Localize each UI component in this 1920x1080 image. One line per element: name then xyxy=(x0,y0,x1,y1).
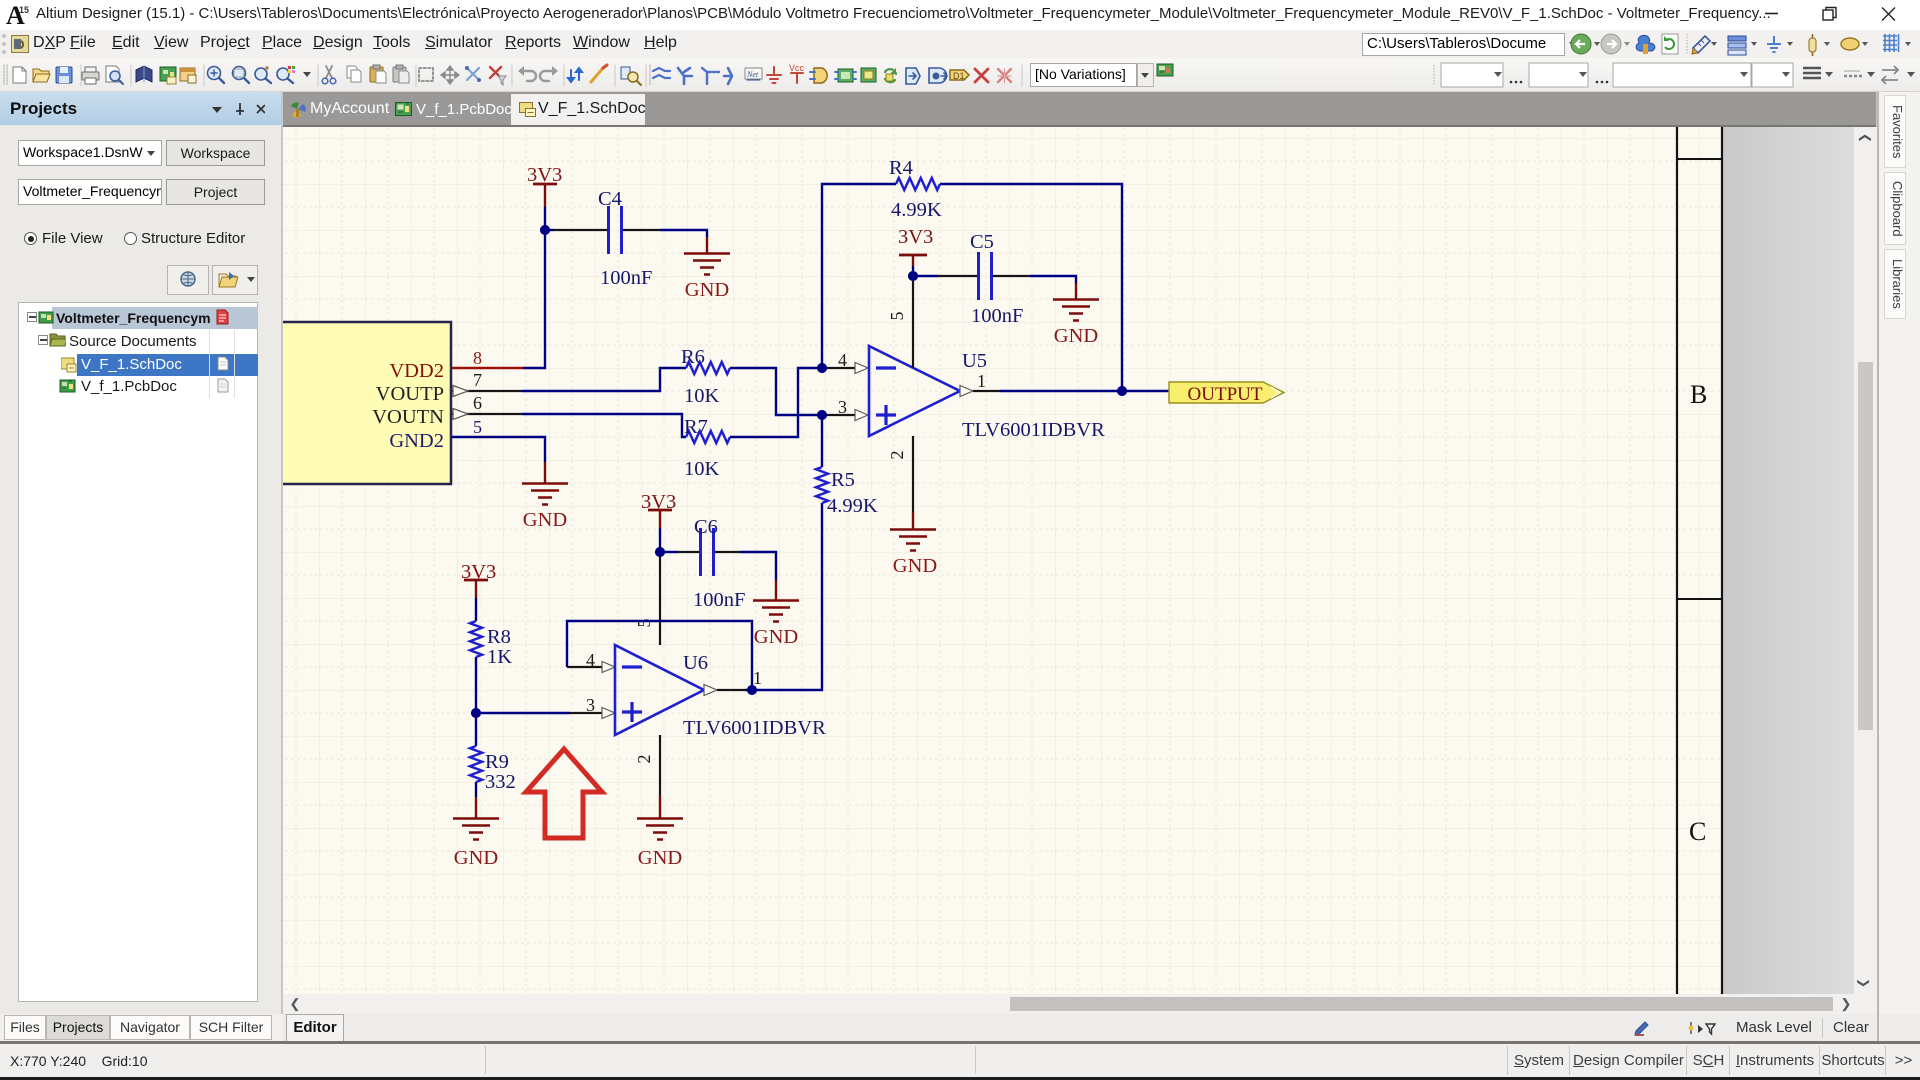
ground GND (R9) xyxy=(453,797,499,869)
node junction U6 output xyxy=(747,685,757,695)
svg-text:3: 3 xyxy=(586,695,595,715)
window xyxy=(180,68,195,81)
handle xyxy=(649,65,651,85)
svg-text:GND: GND xyxy=(1054,325,1098,347)
svg-text:TLV6001IDBVR: TLV6001IDBVR xyxy=(962,419,1105,441)
U5 +input pin lead xyxy=(822,414,855,416)
wire node to U6 +input xyxy=(476,712,570,714)
wire pin7 to R6 xyxy=(522,368,686,391)
gnd icon xyxy=(767,67,781,83)
resistor R6 xyxy=(681,346,730,407)
svg-text:100nF: 100nF xyxy=(693,589,745,611)
zoom colored xyxy=(277,68,289,80)
device sheet xyxy=(929,68,947,83)
svg-text:100nF: 100nF xyxy=(600,267,652,289)
svg-text:C: C xyxy=(1689,817,1706,846)
save xyxy=(56,67,72,83)
net label xyxy=(745,68,762,79)
svg-text:6: 6 xyxy=(473,393,482,413)
D1 tag xyxy=(950,70,969,80)
sep xyxy=(614,65,616,86)
oval xyxy=(1841,38,1859,50)
svg-text:VOUTN: VOUTN xyxy=(372,406,444,428)
cut xyxy=(326,66,332,78)
wire xyxy=(653,68,670,78)
pin 7 lead xyxy=(452,390,522,392)
paste xyxy=(370,67,383,82)
move xyxy=(441,66,459,84)
wire U6 feedback xyxy=(567,621,752,690)
printer xyxy=(82,72,99,80)
svg-text:TLV6001IDBVR: TLV6001IDBVR xyxy=(683,717,826,739)
book xyxy=(136,66,152,82)
grid xyxy=(1883,34,1899,52)
svg-text:5: 5 xyxy=(887,312,907,321)
capacitor C5 pin leads xyxy=(938,275,1030,277)
wire pin8 red stub xyxy=(452,367,523,369)
wire pin6 to R7 xyxy=(522,414,686,437)
resistor R9 xyxy=(470,746,516,793)
svg-text:R4: R4 xyxy=(889,157,913,179)
redo xyxy=(540,71,555,81)
svg-text:10K: 10K xyxy=(684,458,720,480)
node junction C6 xyxy=(655,547,665,557)
wire R7 to -input xyxy=(730,368,822,437)
zoom sparkle xyxy=(255,68,267,80)
pin 7 indicator xyxy=(453,386,468,397)
svg-text:R8: R8 xyxy=(487,626,511,648)
sep xyxy=(130,65,132,86)
copy xyxy=(347,66,357,78)
ground GND (U6 pin2) xyxy=(637,795,683,869)
part xyxy=(724,68,732,84)
svg-text:15: 15 xyxy=(19,5,29,15)
ruler/pencil xyxy=(1693,36,1710,53)
ground GND (GND2 pin) xyxy=(522,462,568,531)
U5 output indicator xyxy=(960,386,973,397)
U5 -input pin lead xyxy=(822,367,855,369)
U5 +input indicator xyxy=(855,410,868,421)
scroll corner xyxy=(1855,994,1877,1014)
updown xyxy=(568,70,574,82)
green sheet xyxy=(861,68,876,82)
U5 -input indicator xyxy=(855,363,868,374)
svg-text:3: 3 xyxy=(838,397,847,417)
svg-text:4.99K: 4.99K xyxy=(891,199,942,221)
right: path combo + nav icons xyxy=(1362,33,1565,56)
sep xyxy=(1686,34,1688,54)
right side row2 controls xyxy=(1430,58,1920,92)
wire feedback R4 xyxy=(822,184,1122,391)
resistor R4 xyxy=(889,157,942,221)
capacitor C6 xyxy=(693,516,745,611)
directive red arrow marker xyxy=(526,749,602,838)
sep xyxy=(645,65,647,86)
capacitor C5 xyxy=(970,231,1023,327)
port OUTPUT xyxy=(1169,382,1284,405)
power port 3V3 (R8) xyxy=(461,561,496,598)
wire R9 to GND xyxy=(475,782,477,797)
svg-text:R7: R7 xyxy=(684,416,708,438)
sep xyxy=(203,65,205,86)
resistor R8 xyxy=(470,621,512,668)
node junction output xyxy=(1117,386,1127,396)
x2 xyxy=(998,69,1011,82)
back xyxy=(1571,34,1591,54)
power port 3V3 (C4 rail) xyxy=(527,164,562,207)
svg-text:4: 4 xyxy=(586,650,595,670)
svg-text:8: 8 xyxy=(473,348,482,368)
new xyxy=(13,67,26,83)
power port 3V3 (U6 rail) xyxy=(641,491,676,528)
ground GND (C6) xyxy=(753,580,799,648)
svg-text:U6: U6 xyxy=(683,652,708,674)
U6 output pin lead xyxy=(717,689,745,691)
tree row 1: project xyxy=(52,307,258,329)
U6 +input pin lead xyxy=(570,712,602,714)
svg-text:Net: Net xyxy=(746,70,759,79)
svg-text:R6: R6 xyxy=(681,346,705,368)
find similar xyxy=(621,67,630,79)
preview xyxy=(106,66,119,82)
svg-text:GND: GND xyxy=(454,847,498,869)
svg-text:5: 5 xyxy=(473,417,482,437)
tree box xyxy=(18,302,258,1002)
radio Structure Editor xyxy=(124,232,137,245)
ground GND (C5) xyxy=(1053,283,1099,347)
node junction C4/3V3 xyxy=(540,225,550,235)
wire output net xyxy=(1000,390,1169,392)
green part xyxy=(838,69,853,82)
gate xyxy=(814,68,827,83)
capacitor C6 pin leads xyxy=(678,551,740,553)
two tool buttons xyxy=(167,265,209,295)
U6 pin2 lead xyxy=(659,735,661,795)
wire C5 to GND xyxy=(1030,276,1076,283)
radio File View xyxy=(24,232,37,245)
wire R5 branch xyxy=(745,415,822,690)
ground GND (U5 pin2) xyxy=(890,512,937,577)
sep xyxy=(317,65,319,86)
wire U6 power rail xyxy=(659,528,661,552)
resistor R5 xyxy=(816,467,878,517)
svg-text:4: 4 xyxy=(838,350,847,370)
capacitor C4 pin leads xyxy=(553,229,660,231)
tree row 2: Source Documents xyxy=(38,335,48,345)
wire C6 to GND xyxy=(740,552,776,580)
sheet background with grid xyxy=(283,127,1721,1014)
svg-text:GND: GND xyxy=(685,279,729,301)
svg-text:3V3: 3V3 xyxy=(898,226,933,248)
tree row 4: V_f_1.PcbDoc xyxy=(59,378,77,394)
ground xyxy=(1767,36,1781,52)
pcb chip icon after variations combo xyxy=(1156,62,1174,78)
refresh xyxy=(1662,34,1678,54)
node junction R8/R9 xyxy=(471,708,481,718)
node junctions redraw xyxy=(471,225,1127,718)
layers xyxy=(1728,36,1746,41)
U6 -input pin lead xyxy=(567,666,602,668)
cross select xyxy=(467,68,479,80)
paste special xyxy=(393,67,406,82)
wand xyxy=(591,68,603,82)
pin 6 lead xyxy=(452,413,522,415)
tree row 3: V_F_1.SchDoc selected xyxy=(77,354,258,376)
svg-text:100nF: 100nF xyxy=(971,305,1023,327)
svg-text:R9: R9 xyxy=(485,751,509,773)
undo xyxy=(521,71,536,81)
U6 +input indicator xyxy=(602,708,615,719)
op-amp U6 xyxy=(615,645,826,739)
svg-text:GND: GND xyxy=(523,509,567,531)
U6 -input indicator xyxy=(602,662,615,673)
pin 6 indicator xyxy=(453,409,468,420)
faint column lines xyxy=(209,330,210,398)
crystal xyxy=(1809,38,1816,52)
ground GND (C4) xyxy=(684,237,730,301)
svg-text:R5: R5 xyxy=(831,469,855,491)
svg-text:C5: C5 xyxy=(970,231,994,253)
svg-text:VDD2: VDD2 xyxy=(389,360,444,382)
resistor R7 xyxy=(684,416,730,480)
svg-text:B: B xyxy=(1690,380,1707,409)
open xyxy=(33,69,49,82)
U5 pin2 lead xyxy=(912,436,914,512)
svg-text:1: 1 xyxy=(977,371,986,391)
node junction -input xyxy=(817,363,827,373)
node junction +input xyxy=(817,410,827,420)
select rect xyxy=(419,68,433,81)
svg-text:7: 7 xyxy=(473,370,482,390)
sheet border zone band xyxy=(1677,127,1877,1014)
node junction U5 power xyxy=(908,271,918,281)
sep xyxy=(563,65,565,86)
recycle xyxy=(885,69,896,82)
wire C4 to GND xyxy=(660,230,707,237)
wire pin8 to 3V3 rail xyxy=(523,207,545,368)
power port 3V3 (U5) xyxy=(898,226,933,266)
U6 pin5 lead xyxy=(659,552,661,645)
svg-text:2: 2 xyxy=(634,755,654,764)
svg-text:D1: D1 xyxy=(953,71,965,81)
component IC1 voltage sensor block xyxy=(240,322,451,484)
svg-text:10K: 10K xyxy=(684,385,720,407)
no erc x xyxy=(975,69,988,82)
sep xyxy=(80,65,82,86)
svg-text:GND: GND xyxy=(638,847,682,869)
fwd xyxy=(1601,34,1621,54)
wire R6 to +input xyxy=(730,368,822,415)
svg-text:332: 332 xyxy=(485,771,516,793)
U5 output pin lead xyxy=(973,390,1000,392)
svg-text:C4: C4 xyxy=(598,188,622,210)
svg-text:C6: C6 xyxy=(694,516,718,538)
svg-text:GND: GND xyxy=(893,555,937,577)
wire R8 to node xyxy=(475,657,477,746)
zoom rect xyxy=(233,67,246,80)
wire pin5 GND2 xyxy=(452,437,545,462)
pcb doc xyxy=(160,67,176,81)
wire C4 tap xyxy=(545,229,553,231)
svg-text:GND2: GND2 xyxy=(389,430,444,452)
zoom doc xyxy=(208,67,221,80)
wire 3V3 to R8 xyxy=(475,598,477,621)
up helicopter xyxy=(1636,35,1655,51)
svg-text:VOUTP: VOUTP xyxy=(376,383,444,405)
svg-text:3V3: 3V3 xyxy=(527,164,562,186)
wire C5 tap xyxy=(913,275,938,277)
U5 pin5 lead xyxy=(912,276,914,368)
wire C6 tap xyxy=(660,551,678,553)
svg-text:GND: GND xyxy=(754,626,798,648)
svg-text:4.99K: 4.99K xyxy=(827,495,878,517)
clear filter xyxy=(490,67,501,78)
svg-text:U5: U5 xyxy=(962,350,987,372)
svg-text:Vcc: Vcc xyxy=(789,63,805,73)
svg-text:1K: 1K xyxy=(487,646,512,668)
svg-text:OUTPUT: OUTPUT xyxy=(1188,384,1263,405)
op-amp U5 xyxy=(869,346,1105,441)
svg-text:2: 2 xyxy=(887,451,907,460)
svg-text:1: 1 xyxy=(753,668,762,688)
harness xyxy=(702,68,719,84)
sep xyxy=(415,65,417,86)
bus xyxy=(678,68,692,84)
sheet entry xyxy=(906,68,920,84)
sep xyxy=(1021,65,1023,86)
drag handle xyxy=(4,65,7,85)
wire U5 pin5 rail xyxy=(912,266,914,276)
U6 output indicator xyxy=(704,685,717,696)
sep xyxy=(511,65,513,86)
capacitor C4 xyxy=(598,188,652,289)
